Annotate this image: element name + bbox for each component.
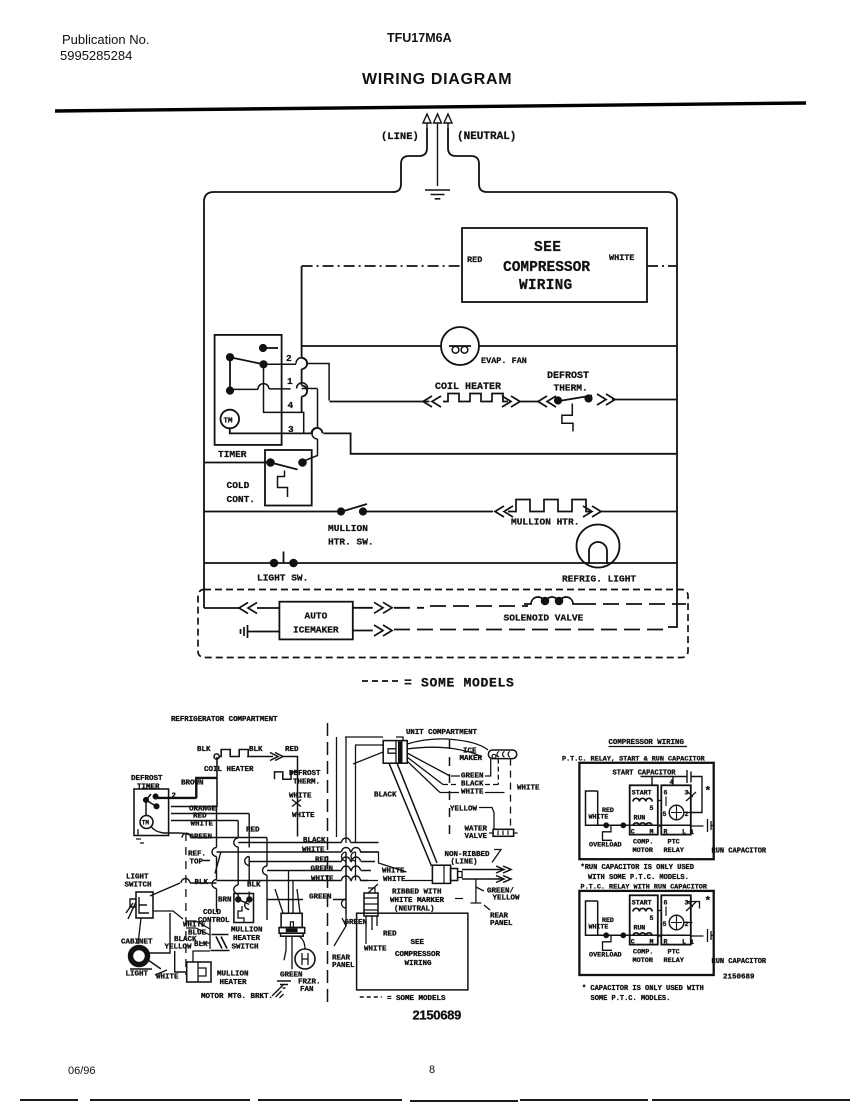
coil heater element: [443, 394, 508, 402]
cold control feed wire: [204, 462, 271, 464]
start capacitor: [641, 770, 703, 813]
ground: [425, 190, 450, 199]
wire defrost to right edge: [612, 399, 677, 401]
cold control bellows: [278, 471, 288, 498]
svg-text:RED: RED: [383, 931, 397, 939]
neutral arrow: [444, 114, 452, 128]
wire to defrost therm: [520, 401, 538, 403]
svg-text:2: 2: [286, 353, 292, 364]
white wire: [171, 820, 238, 822]
svg-text:BLACK: BLACK: [374, 792, 397, 800]
svg-text:WHITE: WHITE: [382, 868, 405, 876]
svg-text:REFRIGERATOR COMPARTMENT: REFRIGERATOR COMPARTMENT: [171, 716, 278, 724]
defrost therm arrows right: [597, 394, 615, 405]
svg-text:THERM.: THERM.: [293, 779, 320, 787]
box 1: [579, 763, 713, 859]
wires below plug: [284, 936, 305, 969]
svg-text:TIMER: TIMER: [218, 449, 247, 460]
svg-text:BLK: BLK: [194, 941, 208, 949]
tangle wires near blk: [186, 921, 210, 943]
tie to ptc top: [672, 777, 674, 786]
svg-text:TOP: TOP: [190, 859, 204, 867]
some models dashed box: [198, 590, 688, 658]
hop on feeder at terminal1: [302, 386, 308, 397]
svg-text:LIGHT SW.: LIGHT SW.: [257, 573, 308, 584]
svg-text:BRN: BRN: [218, 897, 232, 905]
svg-text:*RUN CAPACITOR IS ONLY USED: *RUN CAPACITOR IS ONLY USED: [581, 864, 694, 872]
svg-text:Publication No.: Publication No.: [62, 32, 149, 47]
svg-text:2: 2: [172, 793, 177, 801]
svg-text:WHITE: WHITE: [461, 789, 484, 797]
unit divider dashed: [449, 740, 451, 835]
svg-text:BLK: BLK: [197, 746, 211, 754]
svg-text:WHITE: WHITE: [191, 821, 214, 829]
svg-text:SEE: SEE: [411, 939, 425, 947]
long dashed drop to water valve: [510, 759, 512, 830]
drop wire to cold control: [305, 389, 318, 461]
svg-text:YELLOW: YELLOW: [493, 895, 521, 903]
svg-text:WHITE: WHITE: [302, 847, 325, 855]
svg-text:SOLENOID VALVE: SOLENOID VALVE: [504, 613, 584, 624]
svg-text:WHITE: WHITE: [292, 812, 315, 820]
svg-text:RUN CAPACITOR: RUN CAPACITOR: [712, 958, 767, 966]
light switch wire: [204, 562, 677, 564]
refrig light bulb: [577, 525, 620, 568]
svg-text:EVAP. FAN: EVAP. FAN: [481, 356, 527, 366]
svg-text:SOME P.T.C. MODLES.: SOME P.T.C. MODLES.: [591, 995, 671, 1003]
evap fan motor: [441, 327, 479, 365]
svg-text:MULLION: MULLION: [328, 523, 368, 534]
svg-text:GREEN: GREEN: [311, 866, 334, 874]
svg-text:LIGHT: LIGHT: [126, 971, 149, 979]
mullion feed wire: [204, 511, 493, 513]
light switch: [271, 560, 278, 567]
svg-text:8: 8: [429, 1064, 435, 1076]
svg-text:TM: TM: [142, 820, 150, 827]
svg-text:HTR. SW.: HTR. SW.: [328, 537, 374, 548]
main outer box left/top: [204, 192, 395, 608]
svg-text:RUN CAPACITOR: RUN CAPACITOR: [712, 848, 767, 856]
svg-text:4: 4: [288, 400, 294, 411]
svg-text:COIL HEATER: COIL HEATER: [435, 382, 501, 393]
dash-dot wire WHITE side: [647, 265, 677, 267]
svg-text:WIRING DIAGRAM: WIRING DIAGRAM: [362, 71, 512, 88]
cabinet light wires: [130, 913, 170, 969]
top connector: [383, 741, 407, 764]
svg-text:WIRING: WIRING: [519, 278, 572, 294]
svg-text:WHITE MARKER: WHITE MARKER: [390, 897, 445, 905]
mullion heater element: [508, 500, 592, 512]
run capacitor stub 1: [691, 819, 714, 832]
svg-text:06/96: 06/96: [68, 1065, 96, 1077]
see compressor wiring box: [357, 913, 468, 990]
bus white: [217, 848, 379, 853]
svg-text:WHITE: WHITE: [609, 253, 635, 263]
timer bottom terminal: [136, 829, 144, 843]
motor cluster 2: [586, 895, 695, 965]
line wires out: [462, 870, 502, 880]
svg-text:BLK: BLK: [247, 882, 261, 890]
wire to red arrow: [247, 756, 273, 758]
coil heater arrows right: [502, 396, 520, 407]
red wire: [171, 813, 249, 815]
svg-text:WHITE: WHITE: [383, 876, 406, 884]
vertical red drop to cold control: [245, 814, 250, 910]
bus green: [267, 866, 371, 871]
svg-text:DEFROST: DEFROST: [289, 770, 321, 778]
top connector wires left: [337, 737, 384, 926]
compartment divider dashed: [327, 723, 329, 1003]
cold control box: [265, 450, 312, 506]
run capacitor stub 2: [691, 929, 714, 942]
compressor plug funnel: [275, 871, 300, 914]
bus black: [238, 838, 378, 843]
svg-text:COLD: COLD: [227, 480, 250, 491]
timer cam arm: [146, 794, 157, 816]
some models small legend: [360, 996, 382, 998]
svg-text:= SOME MODELS: = SOME MODELS: [387, 995, 446, 1003]
svg-text:PANEL: PANEL: [332, 962, 355, 970]
wire: neutral drop to bump: [448, 128, 487, 192]
pin 3 wire 2: [687, 902, 700, 909]
timer arm: [230, 357, 264, 364]
svg-text:(NEUTRAL): (NEUTRAL): [394, 906, 435, 914]
center supply arrow: [434, 114, 442, 186]
solenoid return dashed: [580, 603, 686, 605]
svg-text:(LINE): (LINE): [451, 859, 478, 867]
icemaker fill ground: [241, 625, 280, 638]
svg-text:YELLOW: YELLOW: [450, 806, 478, 814]
non-ribbed plug: [432, 865, 450, 883]
svg-text:GREEN: GREEN: [309, 894, 332, 902]
svg-text:FAN: FAN: [300, 986, 314, 994]
light area dashed divider: [185, 833, 187, 975]
cold control box: [234, 894, 254, 923]
timer stub contact: [260, 345, 266, 351]
svg-text:TM: TM: [224, 418, 234, 426]
dash-dot wire RED side: [302, 265, 462, 267]
mullion heater box: [187, 962, 211, 982]
ptc arm 2: [686, 901, 696, 911]
line arrow: [423, 114, 431, 128]
svg-text:BLK: BLK: [249, 746, 263, 754]
solenoid valve coil: [524, 597, 580, 604]
svg-text:MOTOR MTG. BRKT.: MOTOR MTG. BRKT.: [201, 993, 273, 1001]
cabinet light: [131, 948, 148, 965]
timer motor TM: [221, 410, 240, 429]
svg-text:TIMER: TIMER: [137, 784, 160, 792]
svg-text:RED: RED: [315, 857, 329, 865]
TM wire to bus: [230, 428, 677, 454]
svg-text:TFU17M6A: TFU17M6A: [387, 31, 452, 45]
auto icemaker box: [279, 602, 352, 640]
mullion heater arrows right: [583, 506, 601, 517]
mullion heater switch symbol: [211, 935, 230, 951]
wire: line drop to bump: [393, 128, 427, 192]
svg-text:= SOME MODELS: = SOME MODELS: [404, 676, 515, 691]
big black diagonals: [389, 763, 437, 866]
evap fan feed wire: [302, 345, 677, 347]
motor cluster 1: [586, 785, 695, 855]
bus red: [249, 857, 375, 862]
svg-text:HEATER: HEATER: [233, 935, 261, 943]
svg-text:WHITE: WHITE: [311, 876, 334, 884]
orange wire: [171, 806, 217, 808]
svg-text:GREEN: GREEN: [461, 773, 484, 781]
svg-text:2150689: 2150689: [413, 1008, 462, 1023]
svg-text:WHITE: WHITE: [517, 785, 540, 793]
svg-text:HEATER: HEATER: [220, 979, 248, 987]
svg-text:MULLION: MULLION: [217, 971, 249, 979]
bus white 2: [217, 876, 369, 881]
bottom scan line: [20, 1100, 850, 1101]
wires into see compressor box: [366, 916, 377, 944]
box 2: [579, 891, 713, 975]
svg-text:MULLION HTR.: MULLION HTR.: [511, 517, 579, 528]
svg-text:YELLOW: YELLOW: [165, 944, 193, 952]
coil heater arrows left: [423, 396, 441, 407]
svg-text:SWITCH: SWITCH: [125, 882, 152, 890]
svg-text:*: *: [705, 896, 712, 908]
svg-text:WITH SOME P.T.C. MODELS.: WITH SOME P.T.C. MODELS.: [588, 874, 689, 882]
svg-text:MULLION: MULLION: [231, 927, 263, 935]
defrost timer box: [134, 789, 169, 836]
coil heater wire: [330, 401, 430, 403]
defrost therm arrows left: [538, 396, 556, 407]
svg-text:LIGHT: LIGHT: [126, 874, 149, 882]
vertical orange drop: [212, 807, 217, 913]
see compressor wiring box: [462, 228, 647, 302]
svg-text:SWITCH: SWITCH: [232, 944, 259, 952]
svg-text:RIBBED WITH: RIBBED WITH: [392, 889, 442, 897]
ice maker connector: [488, 750, 516, 759]
svg-text:RED: RED: [246, 827, 260, 835]
svg-text:GREEN: GREEN: [345, 919, 368, 927]
svg-text:COMPRESSOR WIRING: COMPRESSOR WIRING: [609, 739, 685, 747]
svg-text:(NEUTRAL): (NEUTRAL): [457, 131, 516, 143]
compressor plug: [281, 913, 302, 927]
terminal 4 wire: [264, 364, 304, 433]
terminal 1 wire: [230, 383, 318, 390]
wire mullion to right edge: [601, 511, 677, 513]
svg-text:REFRIG. LIGHT: REFRIG. LIGHT: [562, 574, 636, 585]
header rule: [55, 103, 806, 111]
rear panel left ground: [334, 852, 346, 946]
vertical white drop to cold control: [234, 821, 238, 900]
svg-text:WIRING: WIRING: [405, 960, 433, 968]
green wire: [182, 833, 267, 838]
mullion heater arrows left: [495, 506, 513, 517]
icemaker out wire 2: [353, 630, 373, 632]
icemaker out wire 1: [353, 607, 373, 609]
svg-text:CONT.: CONT.: [227, 494, 256, 505]
terminal 2 wire: [264, 358, 330, 401]
svg-text:BLK: BLK: [195, 879, 209, 887]
main outer box right/top: [487, 192, 677, 627]
svg-text:AUTO: AUTO: [305, 611, 328, 622]
svg-text:2150689: 2150689: [723, 974, 755, 982]
svg-text:DEFROST: DEFROST: [131, 775, 163, 783]
wires to ice maker: [407, 739, 488, 793]
some models legend: [362, 680, 398, 682]
svg-text:THERM.: THERM.: [554, 383, 588, 394]
tm wire to green: [151, 827, 192, 837]
light switch spring: [126, 902, 136, 919]
timer box: [215, 335, 282, 445]
svg-text:UNIT COMPARTMENT: UNIT COMPARTMENT: [406, 729, 478, 737]
icemaker arrows left: [239, 603, 257, 614]
timer motor: [140, 816, 153, 829]
ribbed plug: [364, 893, 378, 916]
timer pivot: [227, 354, 233, 360]
svg-text:COMPRESSOR: COMPRESSOR: [503, 260, 590, 276]
icemaker feed wire: [204, 607, 240, 609]
svg-text:RED: RED: [285, 746, 299, 754]
svg-text:1: 1: [287, 376, 293, 387]
svg-text:(LINE): (LINE): [381, 131, 419, 143]
svg-text:WHITE: WHITE: [156, 974, 179, 982]
svg-text:SEE: SEE: [534, 240, 561, 256]
defrost therm bimetal step: [275, 772, 298, 779]
svg-text:5995285284: 5995285284: [60, 48, 132, 63]
svg-text:VALVE: VALVE: [465, 833, 488, 841]
svg-text:COLD: COLD: [203, 909, 222, 917]
svg-text:COMPRESSOR: COMPRESSOR: [395, 951, 441, 959]
svg-text:* CAPACITOR IS ONLY USED WITH: * CAPACITOR IS ONLY USED WITH: [582, 985, 704, 993]
svg-text:BLACK: BLACK: [303, 837, 326, 845]
svg-text:RED: RED: [467, 255, 482, 265]
svg-text:ICEMAKER: ICEMAKER: [293, 625, 339, 636]
cold control contacts: [267, 459, 274, 466]
light switch body: [136, 892, 153, 918]
ptc arm 1: [686, 791, 696, 801]
svg-text:COIL HEATER: COIL HEATER: [204, 766, 254, 774]
svg-text:REF.: REF.: [188, 851, 206, 859]
motor bracket slash: [272, 985, 284, 998]
hop on feeder at terminal2: [302, 358, 308, 369]
vertical green drop: [263, 838, 268, 921]
red drop wire: [283, 757, 298, 837]
light switch wire to blk: [150, 879, 217, 897]
defrost therm contacts: [555, 397, 561, 403]
svg-text:BLACK: BLACK: [461, 781, 484, 789]
mullion heater switch: [338, 508, 344, 514]
defrost therm bimetal: [562, 404, 573, 432]
coil heater element top: [219, 750, 248, 757]
frzr fan: [295, 949, 315, 969]
solenoid feed dashed: [430, 605, 528, 607]
svg-text:MAKER: MAKER: [460, 755, 483, 763]
svg-text:WHITE: WHITE: [364, 946, 387, 954]
svg-text:DEFROST: DEFROST: [547, 371, 589, 382]
svg-text:PANEL: PANEL: [490, 920, 513, 928]
vertical feeder from dash-dot corner: [301, 266, 303, 413]
svg-text:*: *: [705, 786, 712, 798]
coil heater top circuit: [214, 754, 219, 759]
extra harness strokes: [138, 911, 210, 962]
svg-text:BROWN: BROWN: [181, 780, 204, 788]
